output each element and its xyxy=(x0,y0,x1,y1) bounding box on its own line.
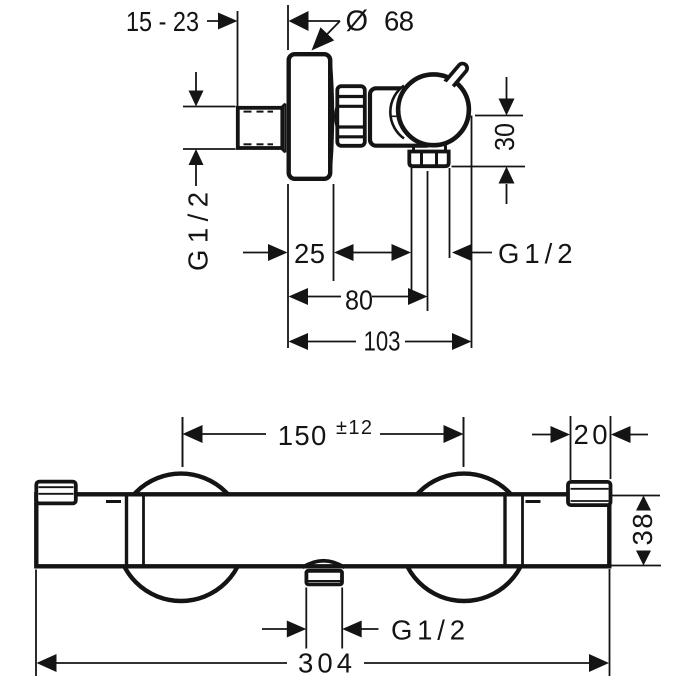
outlet union nut xyxy=(409,152,448,167)
right collar ring xyxy=(505,496,523,565)
body seam dash left xyxy=(106,500,121,503)
dimension 25 row with G1/2 label xyxy=(243,238,573,269)
wall supply pipe xyxy=(238,104,285,153)
dimension 30 (right side) xyxy=(452,77,526,204)
left wall dome (escutcheon circle) xyxy=(117,474,244,601)
extension line at pipe left end xyxy=(237,11,239,106)
extension line escutcheon left (below) xyxy=(287,184,289,348)
dimension 20 xyxy=(532,416,648,480)
extension line body right xyxy=(471,116,473,349)
svg-text:G1/2: G1/2 xyxy=(391,615,465,646)
dimension 103 xyxy=(289,326,472,357)
outlet collar under handle xyxy=(414,146,446,153)
extension line body left bottom xyxy=(35,570,37,677)
mixer bar body xyxy=(36,494,609,566)
dimension 150 +/-12 xyxy=(183,417,464,467)
svg-text:30: 30 xyxy=(489,123,520,151)
dimension G1/2 bottom xyxy=(262,615,465,646)
extension line outlet right xyxy=(449,168,451,258)
svg-text:±12: ±12 xyxy=(336,417,372,439)
svg-text:Ø: Ø xyxy=(346,6,369,38)
right S-union cap xyxy=(568,482,611,505)
thermostat valve body xyxy=(370,88,432,145)
svg-text:150: 150 xyxy=(278,420,327,451)
extension line escutcheon right (below) xyxy=(333,184,335,281)
svg-text:304: 304 xyxy=(298,648,352,679)
dimension 304 xyxy=(37,648,610,679)
extension line at escutcheon left edge xyxy=(287,5,289,50)
knob front rim crescent xyxy=(390,86,408,139)
svg-text:25: 25 xyxy=(294,238,325,269)
svg-text:G1/2: G1/2 xyxy=(498,238,573,269)
extension line outlet centre xyxy=(427,171,429,311)
extension line above right dome xyxy=(463,417,465,466)
extension line body right bottom xyxy=(609,569,611,676)
body seam dash right xyxy=(526,500,541,503)
left collar ring xyxy=(127,496,144,565)
svg-text:38: 38 xyxy=(627,514,658,546)
right wall dome (escutcheon circle) xyxy=(400,474,527,601)
outlet extension line left xyxy=(305,588,307,649)
dimension 38 (right) xyxy=(612,496,662,566)
svg-text:103: 103 xyxy=(364,326,401,357)
svg-text:G1/2: G1/2 xyxy=(183,192,214,271)
dimension 80 xyxy=(289,285,428,316)
wall escutcheon (D68) xyxy=(289,54,333,179)
extension line above left dome xyxy=(182,417,184,467)
connector nut (knurled) xyxy=(335,86,366,146)
thermostat handle (circle) xyxy=(398,74,469,145)
svg-text:20: 20 xyxy=(574,419,608,450)
outlet extension line right xyxy=(341,588,343,649)
svg-text:15 - 23: 15 - 23 xyxy=(126,6,199,37)
dimension 15-23 (wall pipe projection) xyxy=(126,6,238,37)
extension line outlet left xyxy=(411,168,413,292)
svg-text:80: 80 xyxy=(345,285,373,316)
dimension D68 arrow and leader xyxy=(289,11,341,51)
vertical dimension at wall pipe with G1/2 label (left) xyxy=(183,72,236,271)
svg-text:68: 68 xyxy=(384,6,414,37)
handle lever stub xyxy=(403,68,464,140)
bottom outlet nut xyxy=(306,571,342,585)
left S-union cap xyxy=(36,482,76,504)
bottom outlet bump xyxy=(303,561,345,568)
